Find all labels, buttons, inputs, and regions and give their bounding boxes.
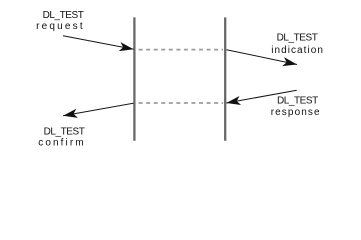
label: DL_TEST confirm <box>38 127 85 149</box>
svg-text:indication: indication <box>271 45 324 56</box>
dashed transfer line (response to confirm) <box>139 102 223 104</box>
svg-text:confirm: confirm <box>38 138 85 149</box>
station A lifeline (left vertical bar) <box>133 17 135 140</box>
station B lifeline (right vertical bar) <box>224 17 226 140</box>
DL_TEST response arrow <box>226 90 296 103</box>
label: DL_TEST indication <box>271 33 324 56</box>
DL_TEST indication arrow <box>226 50 297 65</box>
svg-text:request: request <box>36 21 85 32</box>
DL_TEST request arrow <box>63 36 134 50</box>
dashed transfer line (request to indication) <box>139 49 223 51</box>
svg-text:DL_TEST: DL_TEST <box>277 33 318 44</box>
svg-text:DL_TEST: DL_TEST <box>43 10 84 21</box>
DL_TEST confirm arrow <box>63 103 133 116</box>
label: DL_TEST request <box>36 10 85 32</box>
svg-text:DL_TEST: DL_TEST <box>277 96 318 107</box>
svg-text:response: response <box>271 107 321 118</box>
label: DL_TEST response <box>271 96 321 118</box>
svg-text:DL_TEST: DL_TEST <box>44 127 85 138</box>
